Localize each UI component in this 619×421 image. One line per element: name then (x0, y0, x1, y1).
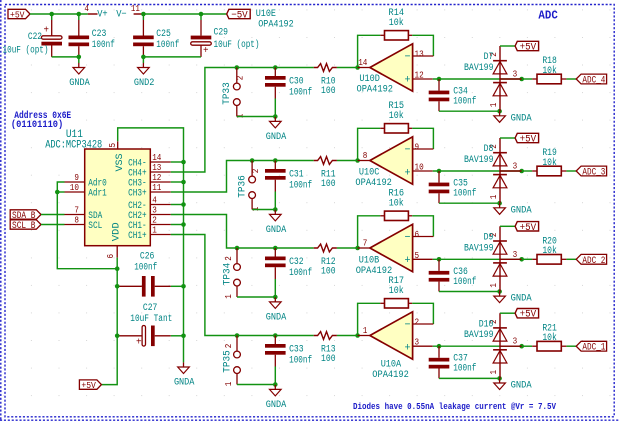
svg-text:6: 6 (415, 230, 420, 240)
capacitor C35 100nf (429, 171, 477, 203)
test point TP35 (222, 336, 240, 387)
junction (273, 333, 278, 338)
diode D10 BAV199 (464, 313, 522, 378)
svg-text:TP33: TP33 (222, 82, 233, 105)
svg-text:3: 3 (513, 250, 518, 260)
svg-text:10k: 10k (389, 110, 404, 122)
svg-text:GNDA: GNDA (511, 113, 532, 124)
svg-text:10uF (opt): 10uF (opt) (3, 45, 49, 57)
junction (273, 158, 278, 163)
svg-text:+: + (405, 255, 411, 267)
svg-text:−: − (405, 145, 411, 157)
wire C27 to ground rail (171, 335, 184, 337)
junction (355, 333, 360, 338)
wire TP34 pin1 to ground node (237, 296, 275, 298)
svg-text:C22: C22 (28, 32, 42, 43)
wire to resistor R19 (522, 170, 533, 172)
svg-text:10k: 10k (389, 198, 404, 210)
wire cap ground to diode ground node (439, 377, 500, 379)
ground GNDA (top left) (69, 63, 90, 89)
wire feedback loop R14 (358, 35, 381, 67)
wire feedback loop R17 (358, 303, 381, 335)
test point TP33 (222, 68, 245, 119)
svg-text:4: 4 (152, 196, 157, 206)
svg-text:+5V: +5V (520, 223, 537, 234)
svg-text:GNDA: GNDA (266, 225, 287, 236)
svg-text:13: 13 (152, 163, 161, 173)
test point TP36 (238, 161, 261, 212)
junction (115, 334, 120, 339)
wire to op-amp output (337, 67, 358, 69)
resistor R10 100 (314, 64, 337, 97)
wire feedback loop R16 (358, 216, 381, 248)
svg-text:+5V: +5V (10, 9, 25, 20)
wire feedback to inverting input (412, 216, 433, 237)
wire diode to +5V (500, 312, 515, 314)
junction (181, 160, 186, 165)
svg-text:−: − (405, 232, 411, 244)
hierarchical label ADC_1 (576, 341, 606, 352)
hierarchical label ADC_3 (576, 166, 606, 177)
svg-text:OPA4192: OPA4192 (357, 84, 394, 95)
svg-text:GND2: GND2 (134, 78, 155, 89)
wire C32 channel from CH+ pin (171, 215, 314, 249)
svg-text:10k: 10k (542, 65, 557, 77)
svg-text:SCL: SCL (88, 221, 102, 232)
junction (49, 12, 54, 17)
wire to ADC_2 label (566, 258, 576, 260)
svg-text:BAV199: BAV199 (464, 63, 494, 74)
svg-text:+: + (405, 74, 411, 86)
junction (141, 55, 146, 60)
ground GNDA (C33) (266, 385, 287, 411)
wire to op-amp output (337, 160, 358, 162)
ground GNDA (D7) (494, 111, 532, 124)
svg-text:OPA4192: OPA4192 (356, 266, 393, 277)
svg-text:ADC_4: ADC_4 (582, 75, 605, 86)
svg-text:−: − (405, 320, 411, 332)
ground GNDA (C32) (266, 297, 287, 323)
wire to ADC_3 label (566, 170, 576, 172)
global label SDA_B (10, 210, 41, 221)
wire VDD rail (101, 258, 117, 385)
svg-text:8: 8 (363, 151, 368, 161)
svg-text:2: 2 (224, 344, 234, 349)
wire feedback loop R15 (358, 128, 381, 160)
junction (273, 114, 278, 119)
wire to resistor R20 (522, 258, 533, 260)
capacitor C34 100nf (429, 79, 477, 111)
svg-text:7: 7 (74, 206, 79, 216)
capacitor C25 100nf (133, 14, 179, 57)
ground GNDA (D9) (494, 292, 532, 305)
note: Address 0x6E (11, 110, 71, 131)
svg-text:1: 1 (489, 283, 499, 288)
svg-text:D10: D10 (479, 319, 494, 330)
svg-text:13: 13 (415, 50, 424, 60)
junction (235, 333, 240, 338)
svg-text:(01101110): (01101110) (11, 119, 63, 131)
ground GNDA (below CH- rail) (174, 362, 195, 388)
svg-text:5: 5 (108, 143, 118, 148)
capacitor C29 (10uF opt, polarized) (191, 14, 260, 57)
svg-text:+5V: +5V (81, 380, 96, 391)
diode D9 BAV199 (464, 226, 522, 291)
wire to ADC_4 label (566, 78, 576, 80)
svg-text:100nf: 100nf (453, 96, 476, 108)
svg-text:3: 3 (513, 70, 518, 80)
svg-text:C29: C29 (214, 28, 229, 39)
wire C26 to ground rail (171, 285, 184, 287)
wire cap ground to diode ground node (439, 202, 500, 204)
resistor R19 10k (532, 148, 566, 176)
diode D7 BAV199 (464, 46, 522, 111)
capacitor C27 10uF Tant (polarized) (117, 303, 172, 349)
wire feedback to inverting input (412, 35, 433, 56)
svg-text:GNDA: GNDA (511, 381, 532, 392)
wire Adr1 stub (57, 191, 64, 193)
op-amp U10E power unit pins V+ / V- (84, 4, 143, 20)
svg-text:12: 12 (152, 173, 161, 183)
junction (55, 190, 60, 195)
junction (519, 169, 524, 174)
resistor R16 10k (380, 189, 412, 221)
wire cap to ground (274, 279, 276, 297)
global label SCL_B (10, 220, 41, 231)
svg-text:C27: C27 (143, 303, 158, 314)
svg-text:10k: 10k (542, 245, 557, 257)
svg-text:TP34: TP34 (222, 263, 233, 286)
svg-text:10: 10 (70, 183, 79, 193)
hierarchical label ADC_2 (576, 254, 606, 265)
capacitor C23 100nf (69, 14, 115, 57)
svg-text:100: 100 (321, 86, 336, 97)
wire to op-amp output (337, 247, 358, 249)
wire TP35 pin1 to ground node (237, 384, 275, 386)
svg-text:3: 3 (152, 206, 157, 216)
ground GNDA (D8) (494, 203, 532, 216)
svg-text:2: 2 (415, 318, 420, 328)
svg-text:7: 7 (363, 239, 368, 249)
junction (115, 284, 120, 289)
svg-text:OPA4192: OPA4192 (258, 19, 294, 30)
junction (273, 246, 278, 251)
wire TP36 pin1 to ground node (252, 209, 275, 211)
junction (273, 295, 278, 300)
svg-text:Diodes have 0.55nA leakage cur: Diodes have 0.55nA leakage current @Vr =… (353, 401, 556, 412)
wire SDA (41, 214, 65, 216)
svg-text:10k: 10k (542, 332, 557, 344)
svg-text:GNDA: GNDA (266, 313, 287, 324)
junction (519, 257, 524, 262)
svg-text:−: − (405, 52, 411, 64)
svg-text:OPA4192: OPA4192 (355, 178, 392, 189)
svg-text:1: 1 (489, 195, 499, 200)
wire op-amp + input node (433, 78, 522, 80)
svg-text:3: 3 (513, 337, 518, 347)
svg-text:11: 11 (152, 183, 161, 193)
wire pin4 stub (171, 204, 184, 206)
svg-text:100nf: 100nf (156, 39, 179, 51)
svg-text:ADC:MCP3428: ADC:MCP3428 (45, 139, 102, 151)
capacitor C26 100nf (117, 252, 171, 297)
svg-text:C23: C23 (92, 29, 107, 40)
junction (497, 289, 502, 294)
junction (235, 246, 240, 251)
svg-text:VSS: VSS (115, 154, 126, 172)
junction (497, 376, 502, 381)
diode D8 BAV199 (464, 138, 522, 203)
junction (181, 334, 186, 339)
svg-text:3: 3 (415, 338, 420, 348)
svg-text:2: 2 (152, 216, 157, 226)
svg-text:+: + (405, 167, 411, 179)
svg-text:GNDA: GNDA (174, 378, 195, 389)
wire to op-amp output (337, 335, 358, 337)
resistor R17 10k (380, 276, 412, 308)
junction (250, 158, 255, 163)
resistor R21 10k (532, 323, 566, 351)
capacitor C30 100nf (265, 68, 312, 99)
wire cap to ground (274, 367, 276, 385)
junction (437, 169, 442, 174)
svg-text:9: 9 (415, 143, 420, 153)
junction (273, 382, 278, 387)
svg-text:1: 1 (363, 326, 368, 336)
wire to GNDA (78, 57, 80, 63)
ground GNDA (D10) (494, 378, 532, 391)
wire pin12 stub (171, 181, 184, 183)
power flag +5V (515, 309, 539, 321)
svg-text:V+: V+ (97, 9, 108, 20)
op-amp U10D OPA4192 (357, 44, 434, 96)
junction (181, 202, 186, 207)
svg-text:1: 1 (489, 103, 499, 108)
capacitor C37 100nf (429, 346, 477, 378)
ground GNDA (C31) (266, 210, 287, 236)
svg-text:100nf: 100nf (92, 39, 115, 51)
wire feedback to inverting input (412, 128, 433, 149)
wire pin14 stub (171, 161, 184, 163)
svg-text:2: 2 (236, 76, 246, 81)
svg-text:OPA4192: OPA4192 (372, 370, 409, 381)
junction (181, 284, 186, 289)
svg-text:100: 100 (321, 266, 336, 277)
svg-text:GNDA: GNDA (266, 132, 287, 143)
svg-text:100nf: 100nf (289, 355, 312, 367)
svg-text:GNDA: GNDA (69, 78, 90, 89)
junction (141, 12, 146, 17)
resistor R12 100 (314, 244, 337, 277)
junction (355, 65, 360, 70)
svg-text:BAV199: BAV199 (464, 155, 494, 166)
ground GND2 (134, 63, 155, 89)
IC U11 ADC:MCP3428 (45, 129, 171, 259)
wire to resistor R18 (522, 78, 533, 80)
power flag -5V (227, 9, 251, 21)
junction (497, 109, 502, 114)
svg-text:1: 1 (224, 294, 234, 299)
svg-text:ADC_2: ADC_2 (582, 255, 605, 266)
svg-text:ADC_1: ADC_1 (582, 342, 605, 353)
svg-text:100nf: 100nf (289, 267, 312, 279)
junction (181, 180, 186, 185)
svg-text:10k: 10k (542, 157, 557, 169)
svg-text:100: 100 (321, 179, 336, 190)
op-amp U10C OPA4192 (355, 137, 433, 189)
wire C30 channel from CH+ pin (171, 68, 314, 173)
svg-text:+: + (136, 338, 142, 349)
capacitor C36 100nf (429, 259, 477, 291)
op-amp U10E reference labels (256, 9, 294, 30)
svg-text:Adr1: Adr1 (88, 188, 107, 200)
power flag +5V (515, 41, 539, 53)
junction (355, 246, 360, 251)
wire cap ground to diode ground node (439, 110, 500, 112)
wire C22/C23 ground (52, 56, 79, 58)
svg-text:100nf: 100nf (289, 180, 312, 192)
svg-text:100nf: 100nf (289, 87, 312, 99)
svg-text:1: 1 (489, 370, 499, 375)
resistor R14 10k (380, 8, 412, 40)
svg-text:12: 12 (415, 71, 424, 81)
svg-text:11: 11 (131, 4, 140, 14)
wire cap to ground (274, 192, 276, 210)
svg-text:2: 2 (224, 256, 234, 261)
svg-text:U10B: U10B (359, 256, 380, 267)
capacitor C32 100nf (265, 248, 312, 279)
svg-text:C31: C31 (289, 170, 304, 181)
svg-text:14: 14 (358, 58, 367, 68)
svg-text:ADC_3: ADC_3 (582, 167, 605, 178)
svg-text:U10A: U10A (381, 359, 402, 370)
wire to ADC_1 label (566, 345, 576, 347)
wire diode to +5V (500, 137, 515, 139)
svg-text:6: 6 (106, 254, 116, 259)
svg-text:1: 1 (224, 382, 234, 387)
wire diode to +5V (500, 225, 515, 227)
svg-text:+5V: +5V (520, 135, 537, 146)
junction (273, 207, 278, 212)
junction (437, 257, 442, 262)
svg-text:+5V: +5V (520, 43, 537, 54)
wire U10E V- pin to -5V flag (143, 13, 226, 15)
wire SCL (41, 224, 65, 226)
wire to resistor R21 (522, 345, 533, 347)
svg-text:100nf: 100nf (453, 276, 476, 288)
svg-text:VDD: VDD (112, 222, 123, 241)
svg-text:9: 9 (74, 173, 79, 183)
power flag +5V (bottom left) (79, 380, 101, 391)
svg-text:C32: C32 (289, 257, 304, 268)
junction (115, 266, 120, 271)
svg-text:100: 100 (321, 354, 336, 365)
power flag +5V (515, 222, 539, 234)
svg-text:14: 14 (152, 153, 161, 163)
svg-text:100nf: 100nf (134, 262, 157, 274)
resistor R15 10k (380, 101, 412, 133)
wire op-amp + input node (433, 345, 522, 347)
junction (355, 158, 360, 163)
junction (437, 344, 442, 349)
svg-text:10k: 10k (389, 17, 404, 29)
wire cap to ground (274, 99, 276, 117)
svg-text:CH3+: CH3+ (128, 189, 147, 200)
svg-text:GNDA: GNDA (511, 205, 532, 216)
capacitor C22 (10uF opt, polarized) (3, 14, 63, 57)
capacitor C33 100nf (265, 336, 312, 367)
svg-text:100nf: 100nf (453, 363, 476, 375)
svg-text:TP36: TP36 (238, 175, 249, 198)
wire op-amp + input node (433, 170, 522, 172)
svg-text:V−: V− (116, 9, 127, 20)
svg-text:+: + (203, 46, 209, 57)
svg-text:C30: C30 (289, 77, 304, 88)
junction (497, 201, 502, 206)
svg-text:+: + (405, 342, 411, 354)
resistor R13 100 (314, 332, 337, 365)
svg-text:1: 1 (152, 226, 157, 236)
junction (235, 65, 240, 70)
svg-text:SCL_B: SCL_B (12, 220, 36, 231)
junction (181, 222, 186, 227)
junction (273, 65, 278, 70)
hierarchical label ADC_4 (576, 74, 606, 85)
svg-text:100nf: 100nf (453, 188, 476, 200)
svg-text:C26: C26 (140, 252, 155, 263)
resistor R18 10k (532, 56, 566, 84)
svg-text:GNDA: GNDA (511, 294, 532, 305)
svg-text:3: 3 (513, 162, 518, 172)
svg-text:+5V: +5V (520, 310, 537, 321)
wire C25/C29 ground (143, 56, 201, 58)
junction (519, 77, 524, 82)
power flag +5V (515, 133, 539, 145)
wire CH- common rail (183, 162, 185, 362)
svg-text:TP35: TP35 (222, 350, 233, 373)
resistor R11 100 (314, 157, 337, 190)
svg-text:8: 8 (74, 216, 79, 226)
svg-text:CH1+: CH1+ (128, 231, 147, 242)
junction (199, 12, 204, 17)
svg-text:D7: D7 (484, 52, 494, 63)
svg-text:10uF Tant: 10uF Tant (130, 314, 172, 325)
wire diode to +5V (500, 45, 515, 47)
wire op-amp + input node (433, 258, 522, 260)
wire pin2 stub (171, 224, 184, 226)
junction (77, 12, 82, 17)
capacitor C31 100nf (265, 161, 312, 192)
svg-text:C25: C25 (156, 29, 171, 40)
svg-text:+: + (44, 26, 50, 37)
wire C33 channel from CH+ pin (171, 235, 314, 336)
wire VSS to analog ground rail (118, 128, 184, 162)
svg-text:10k: 10k (389, 285, 404, 297)
wire feedback to inverting input (412, 303, 433, 324)
ground GNDA (C30) (266, 117, 287, 143)
svg-text:GNDA: GNDA (266, 400, 287, 411)
svg-text:BAV199: BAV199 (464, 243, 494, 254)
svg-text:10: 10 (415, 163, 424, 173)
svg-text:C33: C33 (289, 345, 304, 356)
junction (437, 77, 442, 82)
wire cap ground to diode ground node (439, 291, 500, 293)
junction (77, 55, 82, 60)
wire to GND2 (142, 57, 144, 63)
wire Adr0/Adr1 to VDD rail (57, 182, 117, 269)
resistor R20 10k (532, 237, 566, 265)
wire C31 channel from CH+ pin (171, 161, 314, 193)
